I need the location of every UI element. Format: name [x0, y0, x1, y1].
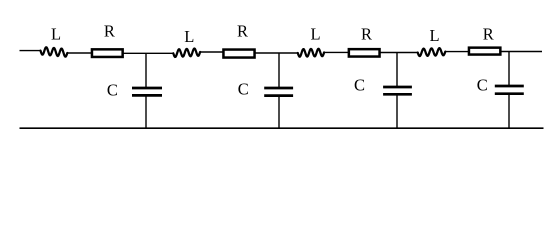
capacitor C2 top lead [278, 53, 280, 88]
wire R4 to right edge (through node of C4) [501, 51, 542, 53]
capacitor C3 top lead [396, 53, 398, 88]
wire L2 to R2 [200, 51, 223, 53]
capacitor C2 bottom lead [278, 96, 280, 129]
capacitor C4 bottom lead [508, 94, 510, 129]
svg-text:L: L [51, 25, 61, 44]
inductor L1 [41, 47, 68, 56]
svg-text:C: C [354, 76, 365, 95]
svg-text:C: C [477, 76, 488, 95]
svg-text:C: C [238, 80, 249, 99]
wire R3 to L4 (through node of C3) [380, 52, 418, 54]
svg-text:L: L [310, 24, 320, 43]
svg-text:L: L [430, 26, 440, 45]
inductor L2 [173, 49, 200, 57]
wire bottom ground rail [20, 127, 544, 129]
capacitor C1 top plate [132, 87, 162, 90]
capacitor C4 bottom plate [495, 92, 524, 95]
capacitor C1 bottom lead [145, 95, 147, 128]
wire L4 to R4 [445, 51, 468, 53]
resistor R1 body [92, 49, 123, 57]
svg-text:L: L [184, 27, 194, 46]
inductor L4 [418, 48, 446, 56]
capacitor C3 top plate [383, 86, 412, 89]
resistor R3 body [349, 49, 380, 56]
wire R2 to L3 (through node of C2) [255, 52, 298, 54]
wire L3 to R3 [324, 51, 348, 53]
capacitor C3 bottom lead [396, 94, 398, 128]
svg-text:R: R [237, 22, 248, 41]
inductor L3 [298, 49, 324, 57]
wire top-left input stub [20, 50, 41, 52]
svg-text:C: C [107, 81, 118, 100]
capacitor C4 top plate [495, 85, 524, 88]
svg-text:R: R [104, 22, 115, 41]
capacitor C3 bottom plate [383, 93, 412, 96]
capacitor C2 bottom plate [264, 94, 293, 97]
circuit: 4-section LRC ladder network [0, 0, 550, 152]
wire R1 to L2 (through node of C1) [124, 52, 174, 54]
resistor R4 body [469, 48, 500, 55]
wire L1 to R1 [67, 52, 91, 54]
capacitor C1 top lead [145, 53, 147, 88]
svg-text:R: R [361, 24, 372, 43]
capacitor C2 top plate [264, 87, 293, 90]
capacitor C1 bottom plate [132, 94, 162, 97]
resistor R2 body [223, 50, 254, 58]
capacitor C4 top lead [508, 52, 510, 87]
svg-text:R: R [483, 25, 494, 44]
